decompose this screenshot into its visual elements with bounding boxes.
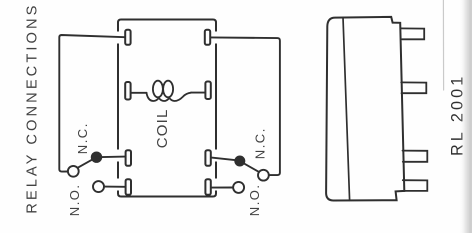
pin 4R (N.O.) — [205, 179, 210, 195]
coil L1 winding — [147, 93, 192, 101]
coil L1 wire right — [191, 92, 205, 94]
left N.O. contact circle — [93, 181, 104, 192]
right common contact (pole) circle — [258, 170, 269, 181]
divider line — [442, 0, 444, 90]
wire pin4R to right N.O. circle — [210, 187, 233, 189]
pin 1L — [125, 30, 130, 45]
wire left dot to pin3L — [97, 156, 126, 159]
left common contact (pole) circle — [68, 166, 79, 177]
page edge shading — [459, 0, 472, 233]
left N.C. contact dot — [91, 152, 102, 163]
wire pin1R to right loop — [210, 37, 280, 175]
svg-text:N.O.: N.O. — [247, 183, 262, 216]
package pin 2 — [401, 82, 426, 93]
pin 4L (N.O.) — [126, 179, 131, 195]
right N.C. contact dot — [234, 156, 245, 167]
right N.O. contact circle — [233, 182, 244, 193]
relay package lid edge line — [343, 18, 350, 201]
pin 3L (N.C.) — [126, 150, 131, 166]
wire pin3R to right dot — [210, 157, 236, 160]
left switch arm — [78, 158, 95, 167]
svg-text:RELAY CONNECTIONS: RELAY CONNECTIONS — [25, 3, 41, 214]
svg-text:N.C.: N.C. — [75, 122, 90, 154]
wire pin1L to left loop — [59, 35, 125, 172]
svg-text:N.C.: N.C. — [253, 127, 268, 159]
svg-text:COIL: COIL — [154, 108, 171, 148]
body edge gaps (wire pass-throughs) — [116, 32, 220, 191]
package pin 1 — [401, 28, 425, 39]
pin 3R (N.C.) — [205, 150, 210, 166]
wire left N.O. circle to pin4L — [104, 186, 125, 188]
pin 2R (coil) — [205, 82, 210, 100]
pin 2L (coil) — [125, 82, 130, 100]
package pin 3 — [403, 151, 428, 162]
relay K1 body outline — [118, 20, 216, 197]
right switch arm — [244, 163, 260, 172]
pin 1R — [205, 30, 210, 45]
coil L1 wire left — [131, 92, 147, 94]
package pin 4 — [403, 180, 428, 191]
relay package case outline — [326, 17, 404, 201]
svg-text:N.O.: N.O. — [67, 183, 82, 216]
